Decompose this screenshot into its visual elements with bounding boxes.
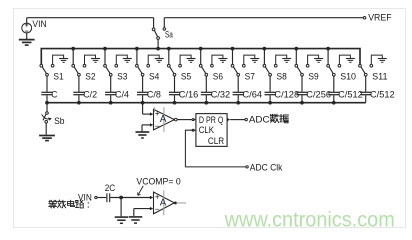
svg-text:VIN: VIN xyxy=(78,193,92,203)
svg-text:S9: S9 xyxy=(308,71,318,82)
svg-text:C/256: C/256 xyxy=(306,89,331,99)
svg-text:CLR: CLR xyxy=(208,136,225,146)
svg-text:C/128: C/128 xyxy=(274,89,299,99)
svg-text:C/2: C/2 xyxy=(83,89,97,99)
svg-text:D PR Q: D PR Q xyxy=(199,115,224,125)
svg-text:S2: S2 xyxy=(85,71,95,82)
svg-text:C/8: C/8 xyxy=(147,89,161,99)
svg-text:S6: S6 xyxy=(213,71,223,82)
svg-text:C: C xyxy=(51,89,57,99)
svg-text:C/512: C/512 xyxy=(338,89,363,99)
svg-text:Sb: Sb xyxy=(54,115,64,126)
svg-text:C/16: C/16 xyxy=(179,89,199,99)
svg-text:VCOMP= 0: VCOMP= 0 xyxy=(136,176,180,187)
svg-text:C/512: C/512 xyxy=(370,89,395,99)
svg-text:S7: S7 xyxy=(245,71,255,82)
svg-text:S3: S3 xyxy=(117,71,127,82)
svg-text:VIN: VIN xyxy=(32,19,46,29)
svg-text:VREF: VREF xyxy=(368,11,392,22)
svg-text:www.cntronics.com: www.cntronics.com xyxy=(224,209,395,232)
svg-text:ADC Clk: ADC Clk xyxy=(250,162,283,172)
svg-text:C/32: C/32 xyxy=(211,89,231,99)
svg-text:S11: S11 xyxy=(372,71,388,82)
svg-text:C/4: C/4 xyxy=(115,89,129,99)
svg-text:CLK: CLK xyxy=(199,125,215,135)
svg-text:Sa: Sa xyxy=(165,29,173,40)
svg-text:A: A xyxy=(160,198,167,209)
svg-text:S5: S5 xyxy=(181,71,191,82)
svg-text:S4: S4 xyxy=(149,71,160,82)
svg-text:C/64: C/64 xyxy=(243,89,263,99)
svg-text:S1: S1 xyxy=(53,71,63,82)
svg-text:S10: S10 xyxy=(340,71,356,82)
svg-text:A: A xyxy=(160,114,167,125)
svg-text:ADC: ADC xyxy=(249,114,270,125)
svg-text:S8: S8 xyxy=(277,71,287,82)
svg-text:2C: 2C xyxy=(105,183,116,193)
